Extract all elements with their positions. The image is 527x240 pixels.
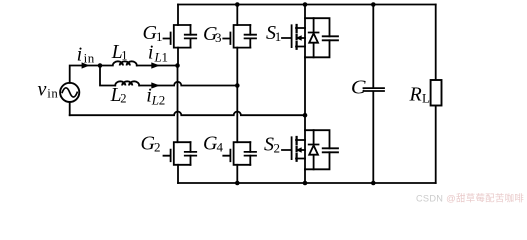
label C [351,78,366,99]
resistor RL [431,5,442,184]
svg-text:L: L [151,93,159,108]
label L2 [110,85,127,106]
node bottom rail leg B [235,181,240,186]
current arrow i_in [82,62,90,68]
label i_in [77,44,95,66]
svg-text:1: 1 [162,50,169,65]
label G4 [203,132,224,154]
wire L1 to node A [137,65,178,67]
svg-text:in: in [47,86,58,100]
watermark [416,193,524,205]
switch G3 with parallel capacitor [223,5,256,86]
wire mid rail with hops over legs A and B [70,112,305,116]
svg-text:2: 2 [159,93,166,108]
label S1 [266,22,281,44]
node bottom rail leg S [303,181,308,186]
svg-text:2: 2 [154,140,161,155]
svg-text:CSDN @甜草莓配苦咖啡: CSDN @甜草莓配苦咖啡 [416,193,524,205]
node mid rail to S leg [303,113,308,118]
svg-text:2: 2 [274,141,281,156]
node input junction [98,63,103,68]
current arrow iL2 [151,82,160,88]
wire source bottom lead [69,102,71,115]
label G2 [141,133,161,155]
inductor L2 [115,81,139,85]
svg-text:3: 3 [215,30,222,45]
node A junction (L1 to leg A) [175,63,180,68]
svg-text:R: R [409,84,422,106]
node top rail leg C [371,2,376,7]
label L1 [111,42,128,63]
wire L2 to node B with hop over leg A [139,82,237,86]
wire source top lead to input node [70,66,100,83]
svg-text:L: L [422,91,430,106]
svg-text:i: i [77,44,83,66]
label S2 [264,134,280,156]
wire bottom rail [178,182,436,184]
svg-text:S: S [264,134,274,156]
svg-text:4: 4 [217,139,224,154]
svg-text:1: 1 [156,29,163,44]
inductor L1 [100,61,137,65]
svg-text:L: L [154,50,162,65]
node bottom rail leg C [371,181,376,186]
label v_in [38,79,59,101]
svg-text:1: 1 [275,29,282,44]
label iL1 [148,42,168,65]
node top rail leg S [303,2,308,7]
svg-text:i: i [148,42,154,64]
switch G4 with parallel capacitor [223,86,256,184]
mosfet S2 with body diode and capacitor [282,115,338,183]
label iL2 [146,85,165,108]
label G3 [203,23,222,45]
node top rail leg B [235,2,240,7]
svg-text:2: 2 [120,92,126,106]
current arrow iL1 [151,62,160,68]
voltage source v_in [60,83,79,102]
label RL [409,84,431,106]
node B junction (L2 to leg B) [235,83,240,88]
wire top rail [178,4,436,6]
label G1 [143,22,163,44]
svg-text:C: C [351,78,366,99]
switch G1 with parallel capacitor [164,5,197,66]
svg-text:1: 1 [121,48,127,62]
capacitor C [364,5,385,184]
wire input node down to L2 branch [100,66,115,86]
switch G2 with parallel capacitor [164,66,197,184]
svg-text:in: in [84,50,95,65]
svg-text:v: v [38,79,47,101]
mosfet S1 with body diode and capacitor [282,5,338,116]
